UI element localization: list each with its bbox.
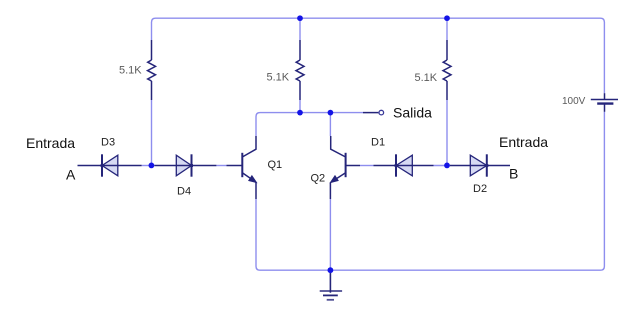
wire left resistor bottom to D3/D4 node [151, 100, 153, 166]
diode D3 [78, 154, 142, 176]
svg-text:Q2: Q2 [311, 173, 326, 185]
diode D1 [374, 154, 434, 176]
svg-text:5.1K: 5.1K [119, 65, 142, 77]
svg-text:D1: D1 [371, 137, 385, 149]
wire Q1 collector to salida line [256, 113, 363, 136]
node dot top middle [297, 15, 303, 21]
output terminal Salida [363, 110, 384, 115]
wire bottom rail [256, 112, 604, 270]
wire right resistor top stub [446, 18, 448, 40]
svg-text:D4: D4 [177, 186, 191, 198]
wire D4 to Q1 base [216, 165, 226, 167]
transistor Q2 [330, 136, 360, 199]
node dot ground junction [328, 267, 334, 273]
svg-text:Entrada: Entrada [499, 134, 548, 150]
svg-text:A: A [66, 167, 76, 183]
wire D3 to D4 [142, 165, 155, 167]
node dot salida right [328, 110, 334, 116]
wire top rail VCC [152, 18, 605, 93]
svg-text:D3: D3 [101, 137, 115, 149]
svg-text:B: B [509, 166, 518, 182]
svg-text:100V: 100V [562, 96, 586, 107]
ground [320, 270, 342, 300]
wire Q2 collector stub [329, 113, 331, 136]
node dot salida left [297, 110, 303, 116]
wire middle resistor bottom to salida line [299, 100, 301, 113]
wire D1 to D2 [434, 165, 451, 167]
resistor R left 5.1K [148, 40, 156, 100]
svg-text:D2: D2 [473, 183, 487, 195]
battery V1 100V [591, 93, 618, 112]
node dot D3/D4 junction [149, 163, 155, 169]
svg-text:Salida: Salida [393, 105, 432, 121]
svg-text:5.1K: 5.1K [267, 72, 290, 84]
wire right resistor bottom to D1/D2 node [446, 100, 448, 166]
svg-text:5.1K: 5.1K [415, 72, 438, 84]
diode D4 [155, 154, 217, 176]
node dot D1/D2 junction [444, 163, 450, 169]
wire Q2 base to D1 [360, 165, 374, 167]
wire Q2 emitter to bottom rail [329, 199, 331, 270]
transistor Q1 [227, 136, 257, 199]
wire middle resistor top stub [299, 18, 301, 40]
node dot top right [444, 15, 450, 21]
resistor R middle 5.1K [296, 40, 304, 100]
diode D2 [450, 154, 510, 176]
svg-text:Q1: Q1 [268, 159, 283, 171]
resistor R right 5.1K [443, 40, 451, 100]
svg-text:Entrada: Entrada [26, 135, 75, 151]
